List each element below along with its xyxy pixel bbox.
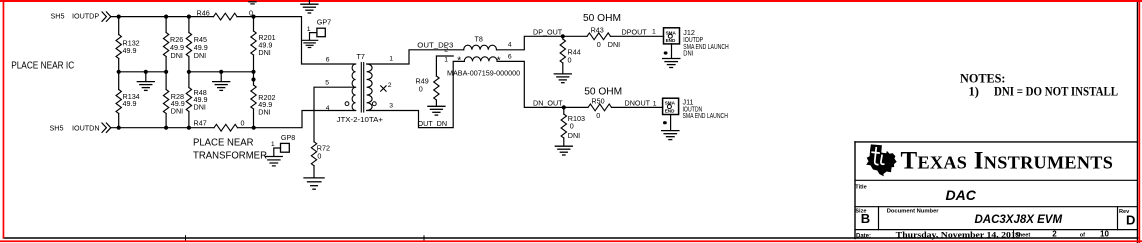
wire column R132/R134 (118, 17, 120, 128)
svg-text:DAC: DAC (946, 187, 977, 203)
svg-text:DPOUT: DPOUT (622, 28, 648, 37)
svg-text:END: END (665, 108, 675, 113)
svg-text:DNI: DNI (194, 51, 206, 60)
svg-text:SH5: SH5 (50, 123, 64, 132)
svg-text:1: 1 (653, 101, 657, 108)
svg-text:0: 0 (419, 85, 423, 94)
resistor R50 0 (588, 104, 612, 111)
svg-text:OUT_DN: OUT_DN (418, 119, 448, 128)
svg-text:10: 10 (1100, 229, 1109, 238)
junction DN_OUT (562, 105, 566, 109)
svg-text:of: of (1080, 232, 1085, 238)
resistor R43 0 DNI (587, 33, 611, 40)
off-page arrow IOUTDN (102, 123, 111, 132)
svg-text:IOUTDP: IOUTDP (72, 12, 99, 21)
svg-text:0: 0 (596, 111, 600, 120)
svg-text:GP7: GP7 (317, 17, 331, 26)
junctions bottom rail (117, 126, 121, 130)
svg-text:GP8: GP8 (281, 133, 295, 142)
svg-text:Thursday, November 14, 2019: Thursday, November 14, 2019 (896, 230, 1021, 240)
wire column R45/R48 (188, 17, 190, 128)
page border black bottom line (4, 237, 1138, 239)
svg-text:R50: R50 (591, 96, 604, 105)
wire R43 to J12 (611, 35, 664, 37)
wire R47 to T7 pin 4 (238, 111, 356, 128)
wire T7 pin 5 to R72 (314, 87, 356, 142)
junction on top rail at R45 (187, 15, 191, 19)
red border top (0, 0, 1142, 2)
wire IOUTDN rail (111, 127, 214, 129)
resistor R49 0 (436, 56, 453, 76)
TI logo ti letters (872, 148, 884, 165)
wire R46 to T7 pin 6 (237, 17, 356, 64)
svg-text:0: 0 (241, 118, 245, 127)
svg-text:R46: R46 (197, 9, 210, 18)
red border left (3, 0, 5, 239)
svg-text:1: 1 (307, 26, 311, 33)
resistor R134 49.9 (116, 90, 121, 114)
svg-text:IOUTDN: IOUTDN (72, 123, 100, 132)
svg-text:50 OHM: 50 OHM (583, 13, 621, 24)
svg-text:2: 2 (444, 46, 448, 53)
svg-text:DNI: DNI (194, 102, 206, 111)
ground on mid rail left (145, 72, 147, 82)
svg-text:4: 4 (326, 105, 330, 112)
svg-text:DNI: DNI (258, 107, 270, 116)
wire column R26/R28 (165, 17, 167, 128)
svg-text:END: END (666, 38, 676, 43)
wire T7 pin3 to OUT_DN to T8 pin1 (367, 61, 465, 127)
ground below R49 (435, 100, 437, 106)
svg-text:TEXAS INSTRUMENTS: TEXAS INSTRUMENTS (901, 147, 1114, 174)
connector J11 SMA END LAUNCH (663, 98, 679, 114)
resistor R72 0 (311, 142, 316, 166)
junction DP_OUT (561, 34, 565, 38)
wire mid rail right (189, 71, 254, 73)
svg-text:PLACE NEAR IC: PLACE NEAR IC (11, 60, 74, 71)
resistor R44 0 (562, 36, 564, 39)
title block frame (855, 142, 1137, 239)
page border black right line (1136, 0, 1138, 243)
svg-text:4: 4 (508, 41, 512, 48)
svg-text:DAC3XJ8X EVM: DAC3XJ8X EVM (975, 214, 1063, 226)
svg-text:Date:: Date: (856, 233, 871, 239)
svg-text:6: 6 (326, 57, 330, 64)
resistor R47 0 (214, 124, 238, 131)
ground on mid rail right (220, 72, 222, 82)
svg-text:DNI: DNI (683, 49, 693, 58)
TI logo Texas shape (866, 144, 897, 176)
resistor R26 49.9 DNI (163, 33, 168, 57)
svg-text:DNOUT: DNOUT (625, 99, 651, 108)
junction on top rail at R132 (117, 15, 121, 19)
resistor R103 0 DNI (563, 107, 565, 114)
wire T8 pin4 to DP_OUT rail (497, 36, 588, 50)
svg-text:T8: T8 (475, 35, 483, 44)
ground stub from top edge (308, 0, 310, 4)
svg-text:0: 0 (568, 55, 572, 64)
svg-text:D: D (1126, 213, 1135, 228)
resistor R202 49.9 DNI (251, 85, 256, 109)
svg-text:1: 1 (271, 141, 275, 148)
connector J12 SMA END LAUNCH (664, 28, 680, 44)
svg-text:2: 2 (388, 82, 392, 89)
ground below R103 (563, 138, 565, 146)
svg-text:0: 0 (597, 40, 601, 49)
svg-text:T7: T7 (357, 52, 365, 61)
svg-text:DNI: DNI (608, 40, 620, 49)
svg-text:R43: R43 (591, 25, 604, 34)
svg-text:B: B (861, 211, 870, 226)
svg-text:49.9: 49.9 (123, 46, 137, 55)
svg-text:DP_OUT: DP_OUT (533, 28, 563, 37)
svg-text:1: 1 (444, 57, 448, 64)
svg-text:DNI = DO NOT INSTALL: DNI = DO NOT INSTALL (994, 84, 1118, 98)
junction on top rail at R201 (251, 15, 255, 19)
wire IOUTDP rail (111, 16, 214, 18)
T7 x2 mark (381, 86, 386, 91)
red border right (1138, 0, 1140, 243)
svg-text:49.9: 49.9 (123, 99, 137, 108)
svg-text:DNI: DNI (171, 106, 183, 115)
off-page arrow IOUTDP (102, 12, 111, 21)
junction mid column R202 (251, 77, 255, 81)
svg-text:3: 3 (389, 103, 393, 110)
svg-text:1: 1 (652, 28, 656, 35)
red border bottom (0, 240, 1142, 242)
svg-text:MABA-007159-000000: MABA-007159-000000 (447, 69, 520, 78)
svg-text:0: 0 (317, 152, 321, 161)
wire mid rail left (119, 71, 166, 73)
svg-text:1: 1 (389, 56, 393, 63)
wire T8 pin6 to DN_OUT rail (497, 61, 588, 107)
svg-text:JTX-2-10TA+: JTX-2-10TA+ (337, 115, 384, 124)
resistor R132 49.9 (116, 35, 121, 59)
junction mid rail (117, 70, 121, 74)
wire column R201/R202 (253, 17, 255, 128)
svg-text:SH5: SH5 (51, 12, 65, 21)
svg-text:1): 1) (969, 84, 979, 98)
svg-text:Document Number: Document Number (887, 209, 940, 215)
svg-text:PLACE NEAR: PLACE NEAR (193, 138, 254, 149)
junction on top rail at R26 (164, 15, 168, 19)
resistor R28 49.9 DNI (163, 90, 168, 114)
partial ground at top (cropped) (249, 2, 256, 4)
svg-text:R47: R47 (194, 118, 207, 127)
svg-text:*: * (457, 55, 461, 66)
svg-text:Sheet: Sheet (1015, 232, 1030, 238)
svg-text:6: 6 (508, 54, 512, 61)
svg-text:DNI: DNI (258, 48, 270, 57)
svg-text:DNI: DNI (171, 51, 183, 60)
resistor R46 0 (214, 13, 238, 20)
T7 polarity circles (345, 102, 349, 106)
ground below R44 (562, 63, 564, 74)
svg-text:TRANSFORMER: TRANSFORMER (193, 151, 267, 162)
wire R50 to J11 (612, 106, 663, 108)
resistor R201 49.9 DNI (251, 31, 256, 55)
svg-text:DNI: DNI (568, 131, 580, 140)
svg-text:0: 0 (570, 122, 574, 131)
svg-text:5: 5 (325, 80, 329, 87)
wire T7 pin1 to OUT_DP3 (367, 50, 464, 64)
svg-text:Title: Title (855, 185, 866, 191)
resistor R48 49.9 DNI (186, 88, 191, 112)
junction mid rail right (187, 70, 191, 74)
svg-text:DN_OUT: DN_OUT (533, 99, 563, 108)
svg-text:2: 2 (1052, 229, 1057, 238)
svg-text:SMA END LAUNCH: SMA END LAUNCH (683, 111, 728, 120)
resistor R45 49.9 DNI (186, 33, 191, 57)
ground below R72 (313, 166, 315, 178)
